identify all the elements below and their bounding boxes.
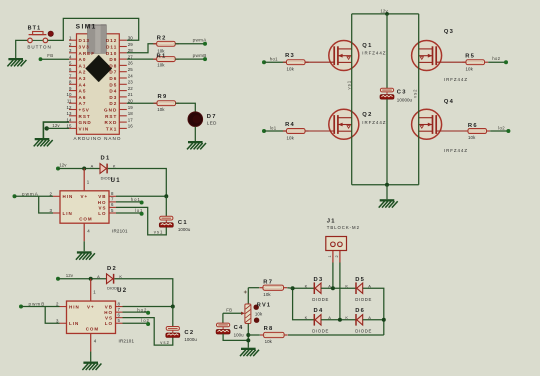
svg-text:LIN: LIN: [69, 321, 79, 326]
svg-text:BT1: BT1: [28, 26, 42, 32]
svg-text:D11: D11: [106, 45, 117, 50]
wire: [490, 130, 508, 132]
svg-text:3V3: 3V3: [79, 45, 90, 50]
svg-text:ho1: ho1: [270, 56, 278, 61]
node junction: [382, 318, 386, 322]
wire: [123, 311, 149, 313]
diode D5: [356, 282, 363, 294]
svg-text:10k: 10k: [157, 62, 165, 67]
svg-text:10k: 10k: [287, 67, 295, 72]
svg-text:lo1: lo1: [270, 125, 277, 130]
wire: [41, 58, 70, 60]
svg-text:13: 13: [67, 111, 72, 116]
node 12v terminal: [56, 277, 60, 281]
svg-text:K: K: [113, 164, 116, 169]
svg-text:18: 18: [128, 111, 133, 116]
wire: [116, 207, 166, 235]
svg-text:RST: RST: [105, 114, 117, 119]
svg-text:HO: HO: [98, 200, 107, 205]
svg-text:10k: 10k: [287, 135, 295, 140]
node junction: [246, 333, 250, 337]
node lo2 terminal: [506, 129, 510, 133]
wire: [194, 127, 196, 142]
svg-text:D9: D9: [109, 57, 117, 62]
capacitor C1: [159, 216, 173, 227]
svg-text:2: 2: [335, 255, 339, 258]
node junction: [385, 183, 389, 187]
wire: [321, 319, 356, 321]
node junction: [164, 194, 168, 198]
ground: [76, 251, 95, 259]
svg-text:BUTTON: BUTTON: [27, 44, 51, 49]
resistor R3: [283, 60, 309, 65]
svg-text:C1: C1: [178, 220, 188, 226]
svg-text:10k: 10k: [157, 107, 165, 112]
node junction: [82, 167, 86, 171]
svg-text:R5: R5: [465, 53, 475, 59]
wire: [123, 318, 173, 346]
wire: [116, 195, 166, 197]
wire: [108, 169, 167, 197]
wire 12v rail: [58, 278, 107, 280]
svg-text:ARDUINO NANO: ARDUINO NANO: [74, 136, 122, 141]
svg-text:1000u: 1000u: [184, 337, 197, 342]
ground: [187, 141, 206, 149]
pin names: [63, 194, 107, 221]
svg-text:11: 11: [67, 99, 72, 104]
wire: [293, 288, 315, 320]
svg-text:21: 21: [128, 92, 133, 97]
ground: [34, 138, 53, 146]
node ho1 terminal: [262, 60, 266, 64]
svg-text:29: 29: [128, 42, 133, 47]
svg-text:A5: A5: [79, 89, 87, 94]
svg-text:GND: GND: [104, 108, 117, 113]
svg-text:10: 10: [67, 92, 72, 97]
svg-text:LED: LED: [207, 121, 217, 126]
svg-text:Q2: Q2: [362, 112, 372, 118]
svg-text:D1: D1: [101, 156, 111, 162]
resistor R7: [259, 285, 287, 290]
svg-text:10000u: 10000u: [397, 98, 413, 103]
svg-text:D6: D6: [109, 76, 117, 81]
svg-text:D13: D13: [79, 38, 90, 43]
connector J1 body: [326, 237, 347, 251]
svg-text:COM: COM: [79, 216, 92, 221]
svg-text:1: 1: [328, 255, 332, 258]
svg-text:Q3: Q3: [444, 29, 454, 35]
svg-text:VS: VS: [99, 205, 107, 210]
wire: [248, 287, 259, 289]
wire: [248, 334, 259, 336]
wire bottom rail: [352, 184, 419, 186]
mosfet Q1 symbol: [329, 41, 359, 71]
wire gate: [305, 130, 334, 132]
wire: [172, 307, 174, 327]
wire: [222, 313, 224, 323]
svg-text:VB: VB: [105, 304, 113, 309]
svg-text:C4: C4: [234, 325, 244, 331]
resistor R8: [260, 332, 288, 337]
pin leads: [60, 307, 123, 324]
svg-text:D7: D7: [109, 70, 117, 75]
pushbutton BT1: [28, 31, 54, 43]
wire: [386, 185, 388, 200]
svg-text:IR2101: IR2101: [119, 339, 135, 344]
wire: [47, 127, 69, 129]
svg-text:pwmA: pwmA: [22, 191, 39, 196]
svg-text:D3: D3: [109, 95, 117, 100]
svg-text:RXD: RXD: [105, 120, 118, 125]
svg-text:Q1: Q1: [362, 43, 372, 49]
svg-text:12v: 12v: [59, 163, 67, 168]
svg-text:R3: R3: [285, 53, 295, 59]
svg-text:VS: VS: [105, 316, 113, 321]
svg-text:K: K: [345, 284, 348, 289]
svg-text:K: K: [305, 315, 308, 320]
wire gate: [436, 130, 468, 132]
svg-text:A: A: [328, 315, 331, 320]
svg-text:12: 12: [67, 105, 72, 110]
svg-text:HIN: HIN: [69, 304, 80, 309]
svg-text:vs1: vs1: [154, 230, 164, 235]
capacitor C2: [166, 327, 180, 338]
svg-text:D5: D5: [355, 277, 365, 283]
wire: [351, 14, 353, 185]
svg-text:D8: D8: [109, 63, 117, 68]
ground: [7, 58, 26, 66]
wire: [21, 306, 60, 308]
svg-text:A: A: [91, 164, 94, 169]
ground: [379, 199, 398, 207]
wire: [48, 18, 139, 40]
svg-text:10k: 10k: [263, 292, 271, 297]
wire: [127, 58, 157, 60]
pin lead J1.1: [332, 251, 334, 263]
svg-text:D2: D2: [107, 266, 117, 272]
node ho2 terminal: [504, 60, 508, 64]
svg-text:LO: LO: [98, 211, 106, 216]
potentiometer RV1: [241, 304, 259, 324]
arduino SIM1 body: [77, 34, 120, 135]
node lo1 terminal: [262, 129, 266, 133]
svg-text:DIODE: DIODE: [312, 297, 329, 302]
wire: [332, 263, 334, 289]
wire: [123, 322, 149, 324]
svg-text:25: 25: [128, 67, 133, 72]
svg-text:LO: LO: [105, 321, 113, 326]
pin leads: [53, 196, 116, 213]
svg-text:19: 19: [128, 105, 133, 110]
wire: [39, 196, 53, 213]
node junction: [171, 305, 175, 309]
svg-text:DIODE: DIODE: [312, 328, 329, 333]
wire: [16, 40, 28, 58]
svg-text:A4: A4: [79, 82, 87, 87]
svg-text:30: 30: [128, 36, 133, 41]
svg-text:R9: R9: [158, 94, 168, 100]
pin numbers: [50, 179, 114, 233]
wire: [223, 334, 248, 341]
diode D3: [314, 282, 321, 294]
arduino pins: [67, 36, 134, 132]
svg-text:V+: V+: [81, 194, 89, 199]
ground: [240, 348, 259, 356]
svg-text:FB: FB: [226, 308, 232, 313]
svg-text:D12: D12: [106, 38, 117, 43]
wire: [288, 334, 384, 336]
svg-text:vs2: vs2: [160, 340, 170, 345]
wire: [386, 14, 388, 88]
svg-text:16: 16: [128, 124, 133, 129]
node junction: [89, 277, 93, 281]
svg-text:R1: R1: [157, 53, 167, 59]
wire: [363, 288, 384, 335]
mosfet Q3 symbol: [412, 41, 442, 71]
wire: [287, 287, 292, 290]
wire: [83, 241, 85, 251]
svg-text:K: K: [345, 315, 348, 320]
svg-text:COM: COM: [86, 327, 99, 332]
node pwmA terminal: [203, 42, 207, 46]
svg-text:VIN: VIN: [79, 126, 90, 131]
node junction: [246, 338, 250, 342]
pin names: [69, 304, 113, 331]
svg-text:+5V: +5V: [79, 108, 90, 113]
resistor R4: [283, 129, 309, 134]
svg-text:D10: D10: [106, 51, 117, 56]
pot mark: [244, 291, 247, 294]
svg-text:C2: C2: [184, 330, 194, 336]
svg-text:HO: HO: [104, 310, 113, 315]
svg-text:D7: D7: [207, 114, 217, 120]
svg-text:TBLOCK-M2: TBLOCK-M2: [327, 225, 360, 230]
arduino mcu chip: [86, 55, 112, 82]
svg-text:D3: D3: [314, 277, 324, 283]
svg-text:12v: 12v: [52, 123, 60, 128]
node ho2 terminal: [146, 311, 150, 315]
svg-text:D4: D4: [314, 308, 324, 314]
svg-text:IRFZ44Z: IRFZ44Z: [362, 120, 386, 125]
svg-text:15: 15: [67, 124, 72, 129]
svg-text:IRFZ44Z: IRFZ44Z: [444, 148, 468, 153]
svg-text:10k: 10k: [468, 135, 476, 140]
resistor R5: [462, 60, 488, 65]
wire: [386, 99, 388, 185]
diode D2: [107, 274, 114, 284]
svg-text:A7: A7: [79, 101, 87, 106]
wire wiper FB: [223, 312, 242, 314]
svg-text:ho2: ho2: [137, 307, 147, 312]
svg-text:26: 26: [128, 61, 133, 66]
wire: [127, 44, 157, 53]
diode D1: [100, 164, 107, 174]
wire gate: [305, 61, 334, 63]
svg-text:DIODE: DIODE: [355, 328, 372, 333]
wire: [116, 201, 142, 203]
svg-text:D5: D5: [109, 82, 117, 87]
svg-text:100u: 100u: [234, 333, 244, 338]
pin lead COM: [83, 223, 85, 241]
wire: [363, 319, 384, 321]
node ho1 terminal: [140, 201, 144, 205]
svg-text:lo2: lo2: [141, 318, 150, 323]
node pwmB terminal: [203, 57, 207, 61]
pin lead V+: [83, 169, 85, 191]
svg-text:12v: 12v: [66, 273, 74, 278]
svg-text:FB: FB: [47, 53, 53, 58]
node pwmB terminal: [19, 305, 23, 309]
pin lead COM: [90, 333, 92, 351]
wire: [45, 307, 59, 324]
svg-text:17: 17: [128, 117, 133, 122]
svg-text:22: 22: [128, 86, 133, 91]
svg-text:ho1: ho1: [131, 197, 141, 202]
svg-text:SIM1: SIM1: [76, 24, 97, 31]
svg-text:A0: A0: [79, 57, 87, 62]
svg-text:LIN: LIN: [63, 211, 73, 216]
svg-text:lo1: lo1: [135, 208, 144, 213]
mosfet Q2 symbol: [329, 109, 359, 139]
led D7: [188, 112, 203, 127]
wire 12v rail: [352, 13, 419, 15]
svg-text:D4: D4: [109, 89, 117, 94]
wire: [123, 306, 173, 308]
svg-text:U1: U1: [111, 178, 121, 184]
svg-text:14: 14: [67, 117, 72, 122]
wire 12v rail: [58, 168, 100, 170]
node lo1 terminal: [140, 212, 144, 216]
svg-text:J1: J1: [327, 219, 336, 225]
svg-text:pwmA: pwmA: [193, 38, 208, 43]
svg-text:V+: V+: [87, 304, 95, 309]
svg-text:C3: C3: [397, 89, 407, 95]
svg-text:pwmB: pwmB: [193, 53, 207, 58]
wire: [264, 130, 287, 132]
svg-text:D2: D2: [109, 101, 117, 106]
wire: [43, 122, 69, 138]
svg-text:TX1: TX1: [106, 126, 117, 131]
svg-text:R8: R8: [264, 326, 274, 332]
capacitor C3: [380, 88, 394, 99]
svg-text:A3: A3: [79, 76, 87, 81]
wire: [176, 103, 196, 112]
svg-text:DIODE: DIODE: [355, 297, 372, 302]
node FB terminal: [39, 57, 43, 61]
svg-text:lo2: lo2: [498, 126, 505, 131]
svg-text:pwmB: pwmB: [29, 302, 46, 307]
node junction: [338, 318, 342, 322]
svg-text:12v: 12v: [380, 8, 388, 13]
node pwmA terminal: [13, 194, 17, 198]
resistor R1: [153, 57, 179, 62]
diode D6: [356, 314, 363, 326]
svg-text:A: A: [97, 274, 100, 279]
arduino usb connector: [87, 24, 106, 54]
svg-text:R2: R2: [157, 36, 167, 42]
node 12v: [385, 12, 389, 16]
node junction: [45, 126, 49, 130]
svg-text:D6: D6: [355, 308, 365, 314]
wire: [90, 352, 92, 362]
capacitor C4: [216, 323, 230, 334]
wire: [264, 61, 287, 63]
svg-text:vs1: vs1: [347, 80, 352, 90]
svg-text:24: 24: [128, 73, 133, 78]
svg-text:HIN: HIN: [63, 194, 74, 199]
svg-text:1000u: 1000u: [178, 227, 191, 232]
wire: [488, 61, 506, 63]
svg-text:GND: GND: [79, 120, 92, 125]
pin lead J1.2: [339, 251, 341, 263]
svg-text:vs2: vs2: [412, 88, 417, 98]
svg-text:R6: R6: [468, 123, 478, 129]
svg-text:10k: 10k: [466, 67, 474, 72]
wire gate: [436, 61, 466, 63]
svg-text:IRFZ44Z: IRFZ44Z: [444, 77, 468, 82]
svg-text:10k: 10k: [265, 339, 273, 344]
svg-text:A2: A2: [79, 70, 87, 75]
svg-text:Q4: Q4: [444, 99, 454, 105]
svg-text:VB: VB: [98, 194, 106, 199]
svg-text:A6: A6: [79, 95, 87, 100]
svg-text:23: 23: [128, 80, 133, 85]
wire: [175, 43, 205, 45]
svg-text:IR2101: IR2101: [112, 228, 128, 233]
wire: [247, 324, 249, 348]
svg-text:10k: 10k: [255, 311, 263, 316]
svg-text:R7: R7: [263, 279, 273, 285]
svg-text:ho2: ho2: [492, 56, 500, 61]
wire: [15, 195, 54, 197]
svg-text:A1: A1: [79, 63, 87, 68]
svg-text:K: K: [305, 284, 308, 289]
wire: [293, 287, 315, 289]
svg-text:AREF: AREF: [79, 51, 96, 56]
resistor R6: [464, 129, 490, 134]
resistor R2: [153, 41, 179, 46]
wire: [247, 288, 249, 304]
wire: [116, 212, 142, 214]
op-amp driver U2 body: [67, 301, 116, 333]
op-amp driver U1 body: [60, 191, 109, 223]
pin lead V+: [90, 279, 92, 301]
wire: [165, 196, 167, 216]
svg-text:U2: U2: [117, 288, 127, 294]
node lo2 terminal: [146, 322, 150, 326]
resistor R9: [153, 101, 179, 106]
ground: [82, 362, 101, 370]
svg-text:R4: R4: [285, 122, 295, 128]
svg-text:A: A: [368, 315, 371, 320]
mosfet Q4 symbol: [412, 109, 442, 139]
wire: [114, 279, 173, 307]
wire: [339, 263, 341, 320]
node junction: [291, 286, 295, 290]
svg-text:K: K: [119, 274, 122, 279]
node 12v terminal: [56, 167, 60, 171]
svg-text:RST: RST: [79, 114, 91, 119]
diode D4: [314, 314, 321, 326]
svg-text:RV1: RV1: [257, 303, 271, 309]
svg-text:IRFZ44Z: IRFZ44Z: [362, 51, 386, 56]
wire: [127, 102, 157, 104]
wire: [175, 58, 205, 60]
wire: [418, 14, 420, 185]
node junction: [331, 286, 335, 290]
pin numbers: [56, 290, 120, 344]
wire: [321, 287, 356, 289]
